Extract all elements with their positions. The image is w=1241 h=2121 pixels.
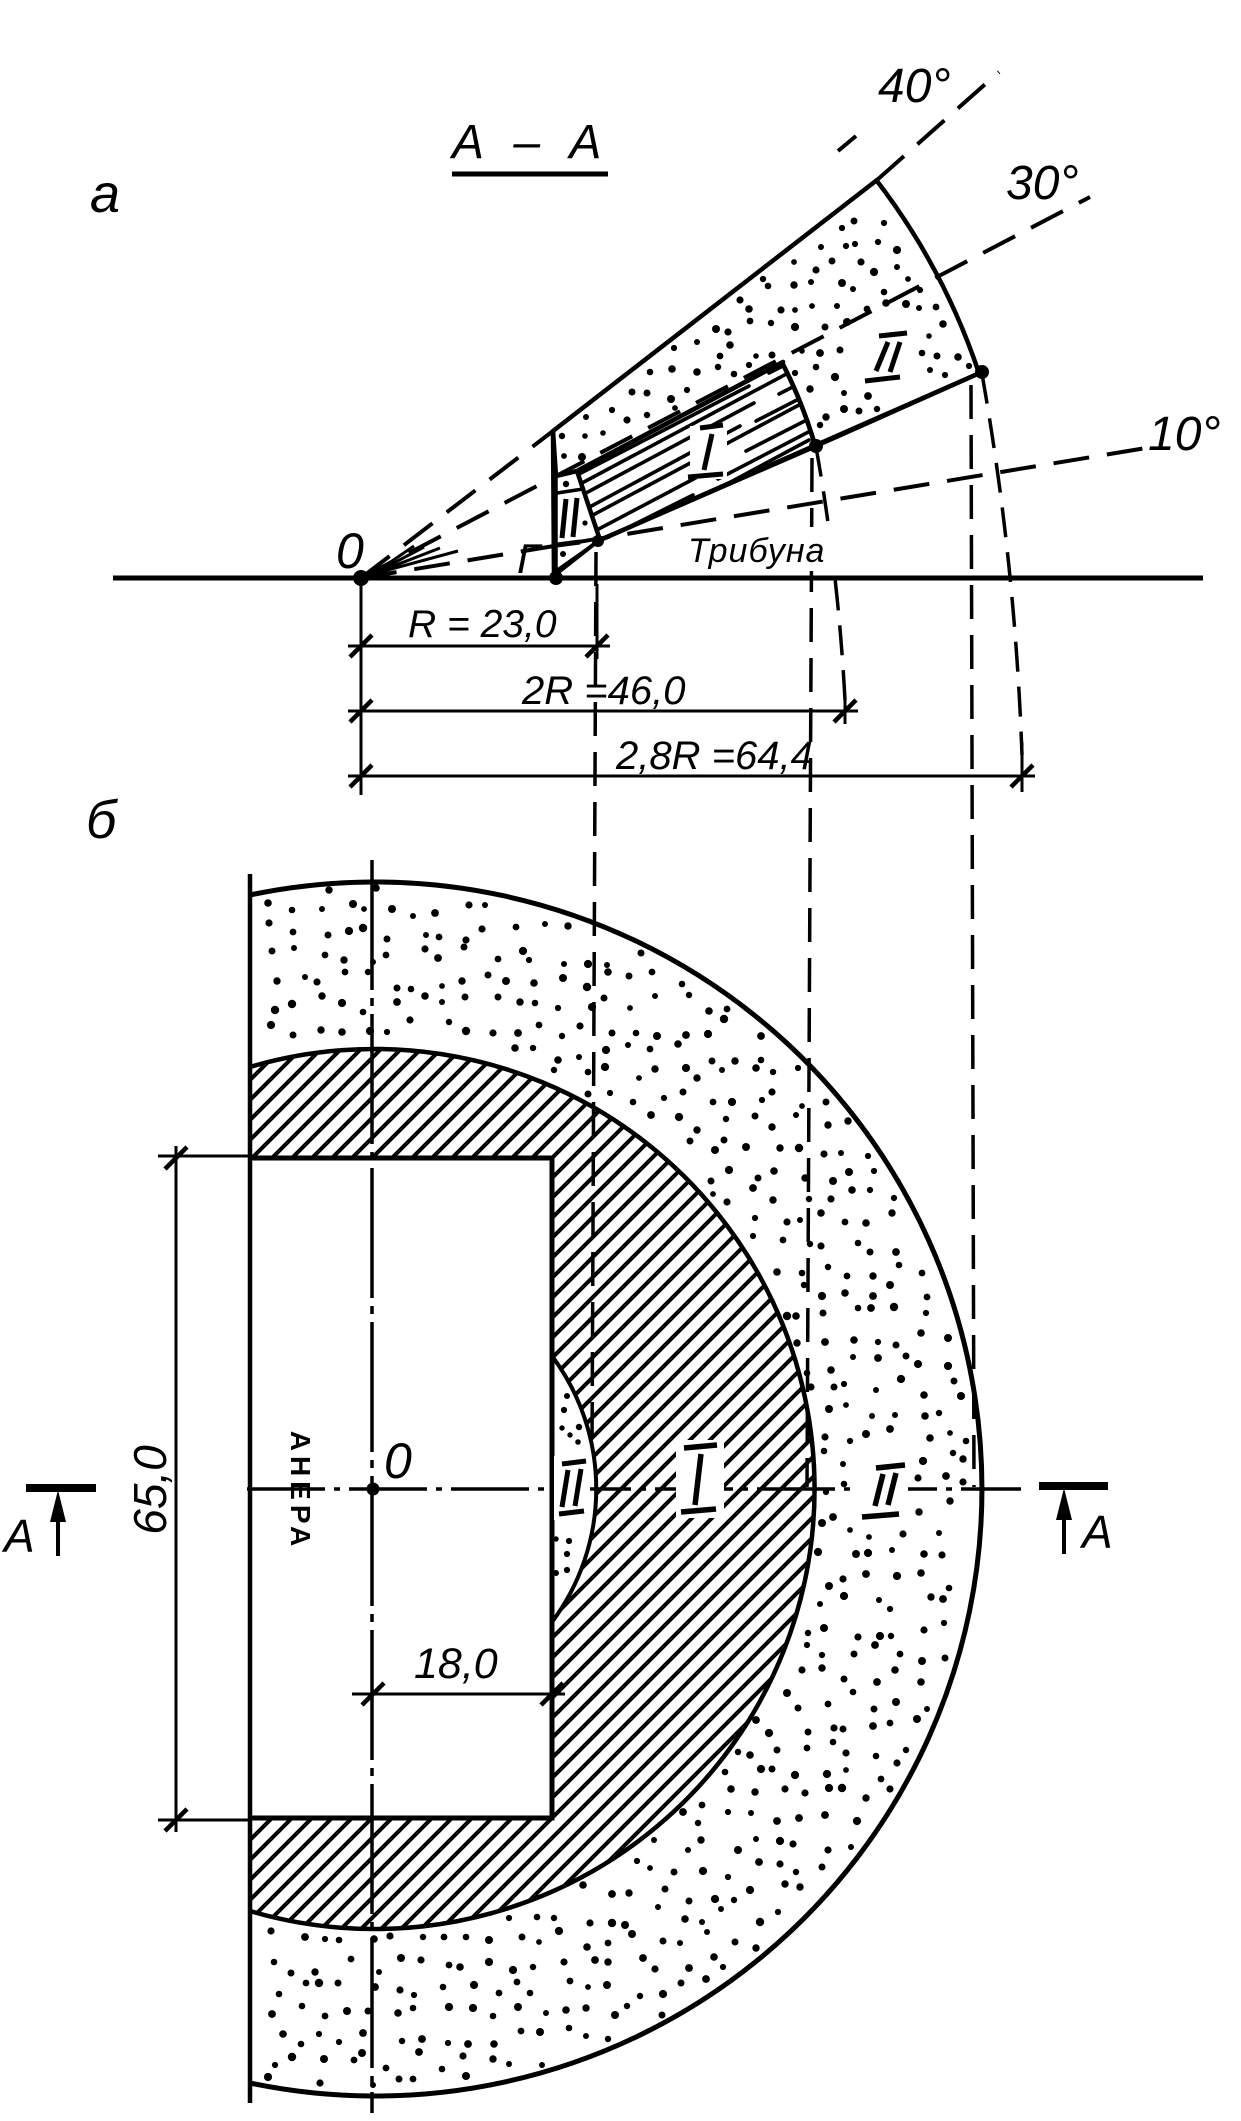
dotted quality zone II (plan) — [264, 884, 969, 2088]
svg-text:40°: 40° — [878, 60, 951, 113]
dimension 18,0 line — [352, 1693, 565, 1696]
node 2.8R on stand — [975, 365, 989, 379]
svg-text:0: 0 — [384, 1433, 412, 1489]
svg-text:б: б — [86, 790, 118, 850]
section mark A left — [26, 1484, 96, 1492]
small lower zone II outline — [556, 471, 600, 571]
svg-text:65,0: 65,0 — [124, 1445, 176, 1535]
zone I outline (section) — [577, 362, 816, 540]
dashed arc extension 2R to dimension — [816, 447, 845, 700]
dimension extension lines — [361, 584, 1022, 795]
outer boundary arc of zone II (plan) — [250, 882, 982, 2096]
svg-text:Трибуна: Трибуна — [688, 532, 825, 570]
plan center point O — [367, 1483, 380, 1496]
dotted quality zone II (section) — [559, 218, 972, 558]
svg-text:А – А: А – А — [449, 116, 609, 169]
vertical construction dashed line at 2.8R — [971, 385, 974, 1487]
cap line in small zone — [557, 489, 583, 493]
dimension line 2.8R=64,4 — [348, 775, 1035, 778]
zone label II big (section) — [865, 333, 907, 381]
svg-text:А: А — [1079, 1506, 1113, 1558]
dimension ticks — [350, 635, 1033, 787]
zone label I (section) — [688, 425, 723, 477]
grandstand front wall — [553, 431, 554, 578]
svg-text:А: А — [1, 1510, 35, 1562]
dashed ray 10 deg from O — [361, 448, 1146, 578]
dimension line R=23,0 — [348, 645, 610, 648]
zone II outline (section sector) — [553, 180, 982, 476]
inner arc (zone II lens boundary) — [552, 1356, 596, 1622]
dashed ray 30 deg from O — [361, 197, 1090, 578]
main ground line (section baseline) — [113, 576, 1203, 581]
plan horizontal centerline — [247, 1487, 1021, 1491]
stand front edge — [556, 541, 598, 574]
zone label II small (section) — [557, 498, 580, 545]
svg-text:R = 23,0: R = 23,0 — [408, 603, 557, 646]
short fan strokes at O — [373, 546, 458, 574]
zone label I (plan) — [681, 1445, 717, 1512]
white gap behind Tribuna — [690, 527, 882, 571]
dimension line 2R=46,0 — [348, 710, 858, 713]
svg-text:а: а — [90, 164, 120, 224]
dimension 65,0 extension lines — [158, 1146, 248, 1832]
svg-text:0: 0 — [336, 523, 364, 579]
node 2R on stand — [809, 439, 823, 453]
svg-text:АНЕРА: АНЕРА — [285, 1431, 316, 1552]
white backing I label — [676, 1440, 724, 1518]
svg-text:10°: 10° — [1148, 408, 1221, 461]
vertical construction dashed line at 2R — [807, 458, 812, 1487]
dimension 65,0 ticks — [165, 1147, 187, 1831]
white backing II outer label — [856, 1458, 908, 1522]
svg-text:Г: Г — [517, 535, 543, 582]
svg-text:30°: 30° — [1006, 157, 1079, 210]
section mark A right — [1039, 1482, 1108, 1490]
plan vertical axis — [370, 860, 374, 2113]
zone label II lens (plan) — [559, 1461, 586, 1514]
boundary arc between zones I and II (plan) — [250, 1049, 815, 1929]
hatched quality zone I (section) — [541, 108, 1083, 786]
svg-text:2,8R =64,4: 2,8R =64,4 — [615, 734, 813, 778]
zone label II outer (plan) — [862, 1465, 905, 1517]
svg-text:2R =46,0: 2R =46,0 — [521, 669, 685, 713]
dashed ray 40 deg from O — [361, 431, 553, 578]
white backing for zone I label (section) — [690, 426, 727, 479]
first-row eye point — [592, 535, 604, 547]
arena rectangle — [250, 1158, 552, 1818]
vertical construction dashed line at R — [592, 552, 596, 1452]
point O — [353, 570, 369, 586]
dashed arc extension 2.8R to dimension — [982, 374, 1022, 755]
left straight border of stands — [248, 874, 253, 2103]
white backing lens label — [554, 1456, 590, 1520]
stand eye line — [598, 372, 982, 541]
dashed ray 40 deg beyond sector — [877, 72, 999, 180]
svg-text:18,0: 18,0 — [414, 1640, 498, 1688]
point G (stand start) — [549, 571, 563, 585]
hatched quality zone I (plan) — [235, 840, 1241, 2121]
